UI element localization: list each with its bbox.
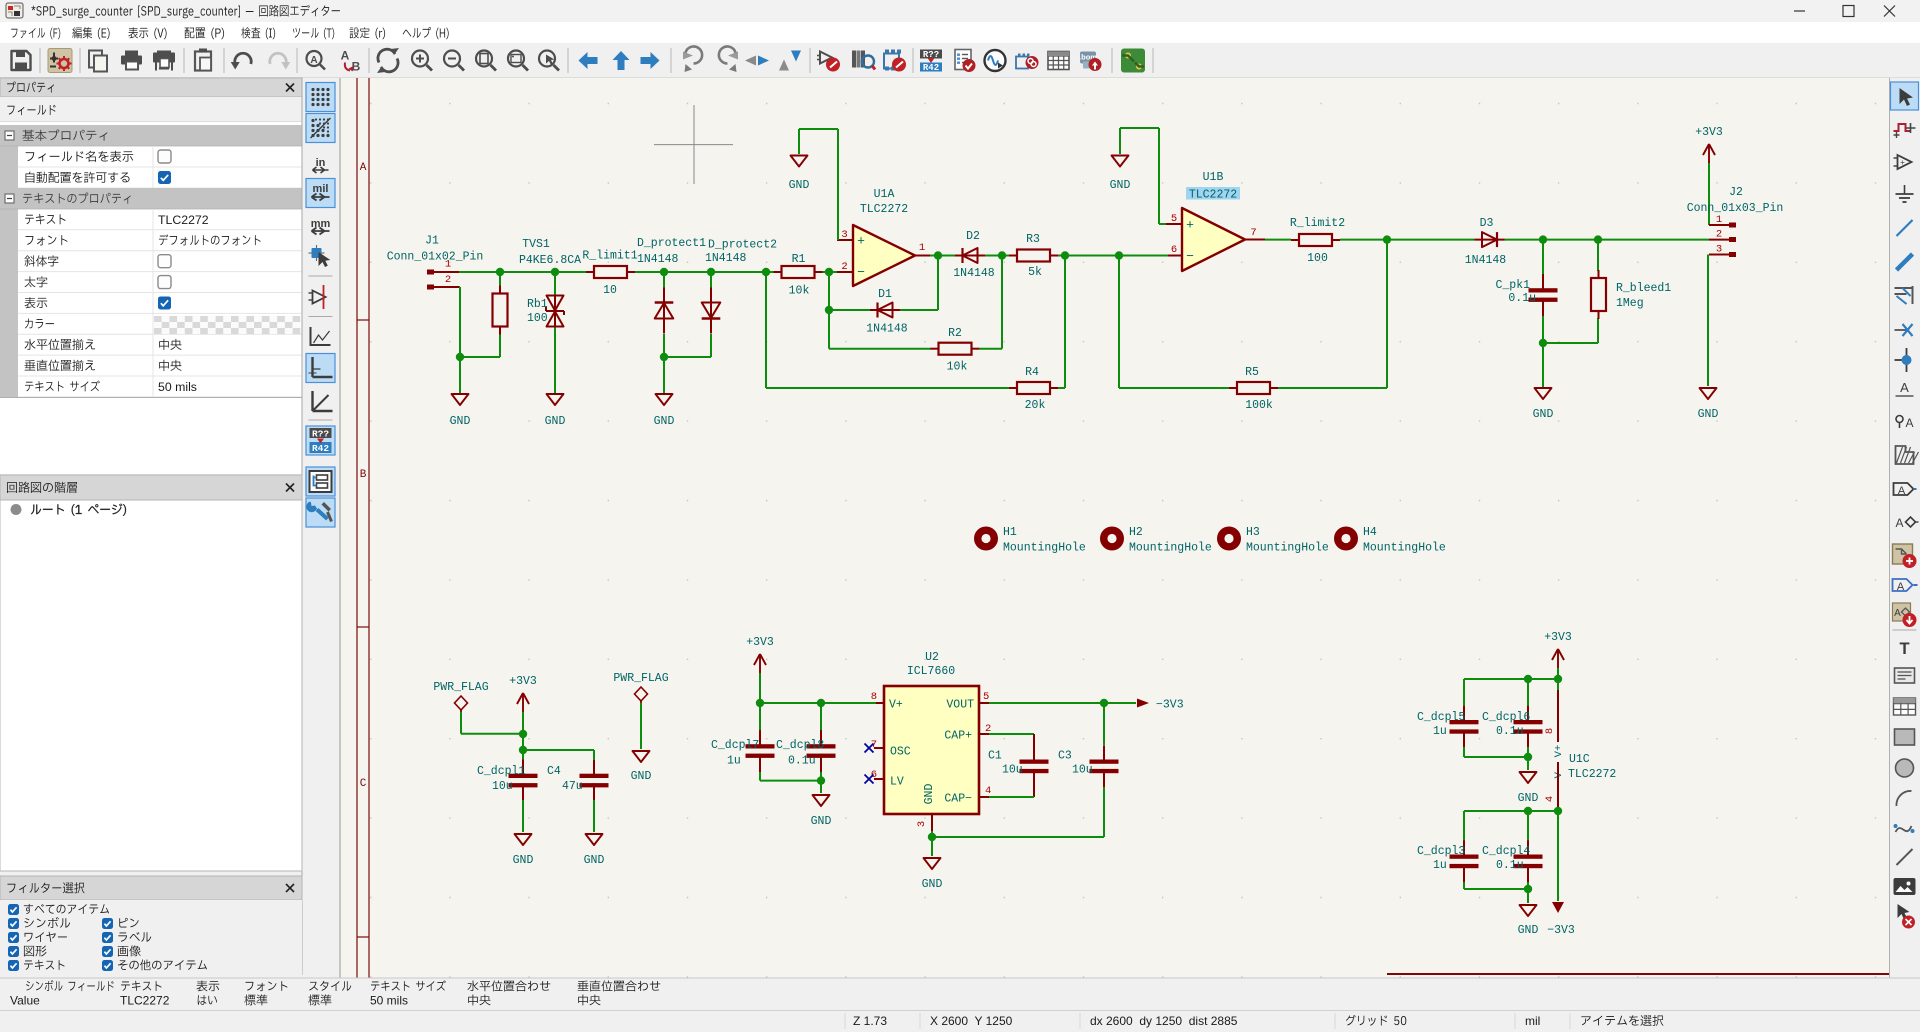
- svg-text:GND: GND: [584, 854, 605, 867]
- svg-text:GND: GND: [513, 854, 534, 867]
- svg-text:A: A: [1895, 516, 1903, 530]
- svg-text:GND: GND: [1698, 408, 1719, 421]
- svg-text:1u: 1u: [727, 755, 741, 768]
- svg-text:100k: 100k: [1245, 399, 1273, 412]
- svg-text:10u: 10u: [492, 780, 513, 793]
- svg-text:+: +: [1900, 158, 1905, 167]
- svg-text:GND: GND: [811, 815, 832, 828]
- svg-text:10k: 10k: [789, 285, 810, 298]
- svg-text:Conn_01x02_Pin: Conn_01x02_Pin: [387, 251, 484, 264]
- svg-text:C_dcpl7: C_dcpl7: [711, 739, 759, 752]
- svg-text:1u: 1u: [1433, 725, 1447, 738]
- svg-text:X 2600 Y 1250: X 2600 Y 1250: [930, 1014, 1013, 1028]
- svg-text:R42: R42: [312, 443, 329, 454]
- svg-text:1N4148: 1N4148: [866, 323, 908, 336]
- svg-text:J1: J1: [425, 235, 439, 248]
- svg-text:C_dcpl8: C_dcpl8: [776, 739, 824, 752]
- svg-text:CAP−: CAP−: [944, 793, 972, 806]
- svg-text:GND: GND: [1518, 924, 1539, 937]
- svg-text:1N4148: 1N4148: [1465, 254, 1507, 267]
- svg-text:C_dcpl6: C_dcpl6: [1482, 711, 1530, 724]
- svg-text:C: C: [360, 778, 367, 790]
- svg-text:3: 3: [916, 821, 928, 827]
- svg-text:U2: U2: [925, 651, 939, 664]
- svg-text:mil: mil: [1525, 1014, 1540, 1028]
- svg-text:10u: 10u: [1002, 764, 1023, 777]
- svg-text:50 mils: 50 mils: [158, 380, 197, 394]
- svg-text:GND: GND: [923, 784, 936, 805]
- svg-text:T: T: [1899, 640, 1909, 658]
- svg-text:U1B: U1B: [1203, 171, 1224, 184]
- svg-text:0.1u: 0.1u: [1496, 725, 1524, 738]
- svg-text:0.1u: 0.1u: [788, 755, 816, 768]
- svg-text:A: A: [341, 49, 350, 63]
- svg-text:R_limit2: R_limit2: [1290, 217, 1345, 230]
- svg-text:D1: D1: [878, 288, 892, 301]
- svg-text:GND: GND: [789, 179, 810, 192]
- svg-text:4: 4: [1544, 796, 1556, 802]
- svg-text:C_pk1: C_pk1: [1495, 279, 1530, 292]
- svg-text:100: 100: [527, 312, 548, 325]
- svg-text:R1: R1: [792, 253, 806, 266]
- svg-text:U1C: U1C: [1569, 753, 1590, 766]
- svg-text:1N4148: 1N4148: [953, 267, 995, 280]
- svg-text:10u: 10u: [1072, 764, 1093, 777]
- svg-text:H4: H4: [1363, 526, 1377, 539]
- svg-text:0.1u: 0.1u: [1508, 292, 1536, 305]
- svg-text:C_dcpl1: C_dcpl1: [477, 765, 525, 778]
- svg-text:TLC2272: TLC2272: [120, 994, 170, 1008]
- svg-text:GND: GND: [654, 415, 675, 428]
- svg-text:ICL7660: ICL7660: [907, 665, 955, 678]
- svg-text:1: 1: [919, 242, 925, 254]
- svg-text:OSC: OSC: [890, 746, 911, 759]
- svg-text:7: 7: [1250, 227, 1256, 239]
- svg-text:J2: J2: [1729, 186, 1743, 199]
- svg-text:GND: GND: [545, 415, 566, 428]
- svg-text:A: A: [1905, 416, 1913, 430]
- svg-text:GND: GND: [631, 770, 652, 783]
- svg-text:A: A: [360, 162, 367, 174]
- svg-text:H2: H2: [1129, 526, 1143, 539]
- svg-text:R2: R2: [948, 327, 962, 340]
- svg-text:D_protect1: D_protect1: [637, 237, 706, 250]
- svg-text:8: 8: [871, 691, 877, 703]
- svg-text:R42: R42: [923, 63, 939, 73]
- svg-text:TLC2272: TLC2272: [158, 213, 209, 227]
- svg-text:+: +: [857, 234, 865, 249]
- svg-text:5: 5: [983, 691, 989, 703]
- svg-text:C3: C3: [1058, 750, 1072, 763]
- svg-text:MountingHole: MountingHole: [1246, 542, 1329, 555]
- svg-text:5k: 5k: [1028, 266, 1042, 279]
- svg-text:LV: LV: [890, 776, 904, 789]
- svg-text:GND: GND: [1110, 179, 1131, 192]
- svg-text:VOUT: VOUT: [946, 699, 974, 712]
- svg-text:6: 6: [1171, 244, 1177, 256]
- svg-text:Z 1.73: Z 1.73: [853, 1014, 887, 1028]
- svg-text:R3: R3: [1026, 233, 1040, 246]
- svg-text:20k: 20k: [1025, 399, 1046, 412]
- svg-text:1Meg: 1Meg: [1616, 297, 1644, 310]
- svg-text:H3: H3: [1246, 526, 1260, 539]
- svg-text:H1: H1: [1003, 526, 1017, 539]
- svg-text:3: 3: [841, 229, 847, 241]
- svg-text:2: 2: [445, 274, 451, 286]
- svg-text:4: 4: [985, 785, 991, 797]
- svg-text:R5: R5: [1245, 366, 1259, 379]
- svg-text:Rb1: Rb1: [527, 298, 548, 311]
- svg-text:47u: 47u: [562, 780, 583, 793]
- svg-text:−: −: [857, 265, 865, 280]
- svg-text:A: A: [1900, 380, 1909, 395]
- svg-text:10: 10: [603, 284, 617, 297]
- svg-text:5: 5: [1171, 213, 1177, 225]
- svg-text:PWR_FLAG: PWR_FLAG: [613, 672, 668, 685]
- svg-text:U1A: U1A: [874, 188, 895, 201]
- svg-text:50 mils: 50 mils: [370, 994, 408, 1008]
- svg-text:C_dcpl5: C_dcpl5: [1417, 711, 1465, 724]
- svg-text:PWR_FLAG: PWR_FLAG: [433, 681, 488, 694]
- svg-text:TLC2272: TLC2272: [1568, 768, 1616, 781]
- svg-text:GND: GND: [922, 878, 943, 891]
- svg-text:1N4148: 1N4148: [637, 253, 679, 266]
- svg-text:+3V3: +3V3: [746, 636, 774, 649]
- svg-text:+: +: [1186, 218, 1194, 233]
- svg-text:C_dcpl3: C_dcpl3: [1417, 845, 1465, 858]
- svg-text:D3: D3: [1480, 217, 1494, 230]
- svg-text:A: A: [1894, 608, 1901, 619]
- svg-text:R_limit1: R_limit1: [582, 250, 637, 263]
- svg-text:Conn_01x03_Pin: Conn_01x03_Pin: [1687, 202, 1784, 215]
- svg-text:dx 2600 dy 1250 dist 2885: dx 2600 dy 1250 dist 2885: [1090, 1014, 1238, 1028]
- svg-text:C4: C4: [547, 765, 561, 778]
- svg-text:1u: 1u: [1433, 859, 1447, 872]
- svg-text:MountingHole: MountingHole: [1363, 542, 1446, 555]
- svg-text:1N4148: 1N4148: [705, 252, 747, 265]
- svg-text:V+: V+: [1553, 745, 1565, 758]
- svg-text:R4: R4: [1025, 366, 1039, 379]
- svg-text:1: 1: [1716, 214, 1722, 226]
- svg-text:100: 100: [1307, 252, 1328, 265]
- svg-text:C1: C1: [988, 750, 1002, 763]
- svg-text:D2: D2: [966, 230, 980, 243]
- svg-text:P4KE6.8CA: P4KE6.8CA: [519, 254, 581, 267]
- svg-text:TLC2272: TLC2272: [860, 203, 908, 216]
- svg-text:R_bleed1: R_bleed1: [1616, 282, 1671, 295]
- svg-text:−: −: [1186, 249, 1194, 264]
- svg-text:10k: 10k: [947, 361, 968, 374]
- svg-text:CAP+: CAP+: [944, 730, 972, 743]
- svg-text:C_dcpl4: C_dcpl4: [1482, 845, 1530, 858]
- svg-text:8: 8: [1544, 728, 1556, 734]
- svg-text:GND: GND: [1518, 792, 1539, 805]
- svg-text:GND: GND: [450, 415, 471, 428]
- svg-text:MountingHole: MountingHole: [1003, 542, 1086, 555]
- svg-text:+3V3: +3V3: [509, 675, 537, 688]
- svg-text:Value: Value: [10, 994, 40, 1008]
- svg-text:A: A: [1897, 581, 1905, 593]
- svg-text:−3V3: −3V3: [1547, 924, 1575, 937]
- svg-text:2: 2: [1716, 229, 1722, 241]
- svg-text:R??: R??: [312, 429, 329, 440]
- svg-text:A: A: [310, 55, 317, 66]
- svg-text:GND: GND: [1533, 408, 1554, 421]
- svg-text:TVS1: TVS1: [522, 238, 550, 251]
- svg-text:+3V3: +3V3: [1695, 126, 1723, 139]
- svg-text:−3V3: −3V3: [1156, 699, 1184, 712]
- svg-text:3: 3: [1716, 244, 1722, 256]
- svg-text:MountingHole: MountingHole: [1129, 542, 1212, 555]
- svg-text:V+: V+: [889, 699, 903, 712]
- svg-text:B: B: [360, 469, 367, 481]
- svg-text:+3V3: +3V3: [1544, 631, 1572, 644]
- svg-text:2: 2: [841, 261, 847, 273]
- svg-text:0.1u: 0.1u: [1496, 859, 1524, 872]
- svg-text:D_protect2: D_protect2: [708, 239, 777, 252]
- svg-text:TLC2272: TLC2272: [1189, 189, 1237, 202]
- svg-text:A: A: [1898, 485, 1906, 497]
